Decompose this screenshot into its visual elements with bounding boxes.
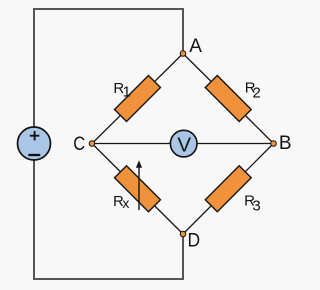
svg-text:D: D bbox=[188, 229, 201, 251]
svg-text:x: x bbox=[122, 195, 129, 211]
svg-text:1: 1 bbox=[123, 84, 131, 101]
svg-text:V: V bbox=[177, 133, 191, 156]
svg-text:A: A bbox=[189, 36, 202, 57]
svg-text:2: 2 bbox=[253, 84, 261, 101]
svg-text:C: C bbox=[73, 133, 85, 154]
svg-text:3: 3 bbox=[252, 198, 260, 215]
svg-text:B: B bbox=[279, 133, 292, 154]
